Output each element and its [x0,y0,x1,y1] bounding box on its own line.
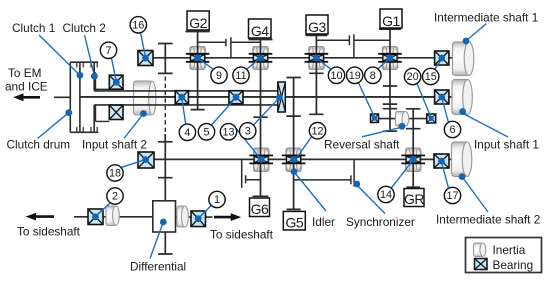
leader Intermediate shaft 1 [467,24,487,41]
gear label box G4 [249,19,272,39]
legend inertia icon [474,243,486,257]
bearing 17 intermediate shaft 2 right [434,154,449,168]
synchronizer idler-GR on intermediate shaft 2 [294,159,355,186]
leader circle 7 [112,58,117,81]
dot idler line [291,168,298,175]
svg-text:To sideshaft: To sideshaft [210,228,274,242]
reversal shaft [371,118,435,120]
final drive ring gear line to differential [158,134,173,201]
svg-text:Input shaft 2: Input shaft 2 [82,138,147,152]
clutch drum housing [70,62,98,132]
needle bearing idler gear with gear end bars [282,155,306,163]
arrow to sideshaft right [214,213,241,221]
numbered circles [100,17,460,208]
gear line G5 idler [286,78,300,210]
leader circle 6 [442,98,449,123]
gear cylinder G3 on upper lay shaft [309,47,324,70]
leader circle 10 [316,58,331,69]
gear line GR from reversal shaft [406,109,420,189]
svg-text:To sideshaft: To sideshaft [17,225,81,239]
svg-text:Bearing: Bearing [493,258,534,272]
clutch drum hub step lines at bearing 7 [96,72,110,121]
legend box [466,238,542,273]
svg-text:G5: G5 [285,215,303,231]
svg-text:G6: G6 [251,201,269,217]
gear cylinder G4 on upper lay shaft [253,47,268,70]
svg-text:Clutch drum: Clutch drum [7,138,71,152]
inertia cylinder intermediate shaft 1 right end [453,42,474,76]
clutch drum plate notches [77,62,97,132]
dot bearing 5 [233,94,240,101]
leader circle 9 [198,58,214,69]
dot clutch drum [65,109,72,116]
svg-text:Inertia: Inertia [493,243,526,257]
needle bearing gear G2 with gear end bars [186,54,210,62]
leader Input shaft 2 [124,114,144,139]
bearing 6 input shaft 1 right [435,90,449,104]
svg-text:Reversal shaft: Reversal shaft [324,137,400,151]
bearing 18 intermediate shaft 2 left [138,152,154,168]
dot synchronizer lower [353,181,360,188]
bearing 1 right sideshaft [191,211,206,227]
sideshaft left [74,216,153,218]
gear label box G1 [380,9,402,29]
svg-text:G1: G1 [382,13,400,29]
leader circle 19 [359,83,375,117]
svg-text:11: 11 [235,70,246,82]
svg-text:GR: GR [404,191,424,207]
inertia cylinder left sideshaft [106,206,119,226]
svg-text:7: 7 [105,45,111,57]
svg-text:9: 9 [216,70,222,82]
anchor dots [65,38,469,226]
gear label box G6 [250,198,270,217]
gear line G3 [305,35,327,114]
svg-text:Clutch 2: Clutch 2 [63,21,106,35]
gear line G1 down to reversal shaft [379,29,401,131]
differential lower stub with gear bar [158,232,173,254]
needle bearing gear G4 with gear end bars [249,54,273,62]
svg-text:10: 10 [330,70,342,82]
leader circle 2 [96,202,111,216]
leader circle 13 [234,126,261,159]
svg-text:13: 13 [222,126,234,138]
gear cylinder idler G5 on intermediate shaft 2 [286,148,301,172]
bearing 19 reversal shaft left small [371,114,379,123]
input shaft 2 hollow shaft bottom line [94,104,278,106]
bearing 5 on input shaft 2 [229,91,243,104]
dot bearing 4 [178,94,185,101]
dot bearing 18 [142,156,149,163]
svg-text:To EM: To EM [8,66,41,80]
dot clutch 1 [77,72,84,79]
svg-text:15: 15 [425,71,437,83]
dot bearing 17 [438,158,445,165]
bearing 15 upper lay shaft right [435,51,449,65]
inertia cylinder reversal shaft [396,112,409,127]
dot reversal inertia [399,123,406,130]
bearing 3 pilot bearing between input shafts [278,82,286,112]
sideshaft right [176,216,213,218]
synchronizer G3-G1 on lay shaft [316,34,390,58]
dot reversal bearing right [429,116,434,121]
leader circle 3 [254,98,280,126]
needle bearing gear G1 with gear end bars [378,54,402,62]
differential cage box [153,201,176,232]
dot gear G4 bearing [257,54,264,61]
gear label box GR [404,189,424,208]
leader circle 20 [417,84,431,118]
dot input shaft 2 cylinder [140,110,147,117]
final drive dashed mesh line [164,77,166,134]
inertia cylinder intermediate shaft 2 right end [452,142,472,177]
synchronizer G2-G4 on lay shaft [198,37,261,58]
bearing 16 upper lay shaft left [138,51,153,66]
leader Idler [295,173,326,211]
svg-text:14: 14 [380,189,392,201]
leader Clutch 1 [39,35,80,75]
svg-text:Differential: Differential [130,260,186,274]
leader lines [38,24,509,259]
svg-text:6: 6 [449,124,455,136]
svg-text:16: 16 [132,19,144,31]
wire engine input stub [54,96,70,98]
dot bearing 16 [142,55,149,62]
leader circle 12 [297,136,312,157]
inertia cylinder on input shaft 2 [134,81,156,115]
svg-text:Intermediate shaft 2: Intermediate shaft 2 [436,213,540,227]
svg-text:G4: G4 [251,23,269,39]
dot idler gear bearing [290,156,297,163]
gear cylinder G2 on upper lay shaft [190,47,205,70]
bearing 2 left sideshaft [88,209,103,225]
leader Differential [150,222,163,259]
leader circle 1 [198,205,211,218]
upper lay shaft [139,57,453,59]
gear cylinder 14 (GR) on intermediate shaft 2 [406,148,421,172]
bearing 7 lower square [109,105,123,119]
leader circle 17 [442,162,449,188]
svg-text:G3: G3 [308,19,326,35]
svg-text:20: 20 [407,71,419,83]
gear line G4 down to G6 [249,40,273,197]
needle bearing gear G3 with gear end bars [305,54,329,62]
clutch 1 disc [79,62,81,132]
gear line G2 [185,32,209,110]
leader circle 18 [122,160,146,168]
input shaft 2 hollow shaft top line [94,90,278,92]
leader circle 4 [182,98,186,125]
svg-text:Input shaft 1: Input shaft 1 [474,137,539,151]
inertia cylinder right sideshaft [177,206,188,227]
svg-text:5: 5 [203,126,209,138]
gear cylinder G1 on upper lay shaft [382,47,397,70]
svg-text:1: 1 [214,194,220,206]
svg-text:3: 3 [245,126,251,138]
leader circle 8 [378,58,391,69]
dot input shaft 1 inertia [459,108,466,115]
clutch 2 disc [93,62,95,132]
svg-text:Clutch 1: Clutch 1 [12,21,55,35]
dot gear G1 bearing [387,54,394,61]
dot gear 13 bearing lower [258,156,265,163]
leader circle 16 [141,33,146,57]
dot intermediate shaft 1 inertia [463,38,470,45]
leader circle 15 [435,59,442,70]
svg-text:4: 4 [184,127,190,139]
gear label box G2 [187,11,209,31]
leader Clutch drum [38,113,69,139]
synchronizer G6 on intermediate shaft 2 [242,159,261,187]
svg-text:Idler: Idler [312,215,335,229]
input shaft 1 solid shaft [80,96,452,98]
dot bearing 6 [438,94,445,101]
svg-text:18: 18 [109,168,121,180]
dot bearing 2 [92,213,99,220]
dot clutch 2 [91,73,98,80]
arrow to sideshaft left [26,213,54,221]
dot differential [160,219,167,226]
legend bearing icon [475,259,488,270]
leader Input shaft 1 [464,114,508,137]
svg-text:G2: G2 [189,15,207,31]
svg-text:Intermediate shaft 1: Intermediate shaft 1 [434,10,538,24]
needle bearing gear 13 lower with gear end bars [249,155,273,163]
bearing 7 upper square [109,75,123,89]
svg-text:and ICE: and ICE [5,80,48,94]
inertia cylinder input shaft 1 right end [452,80,472,115]
dot gear 14 bearing [410,156,417,163]
svg-text:Synchronizer: Synchronizer [346,215,415,229]
leader Synchronizer [357,186,385,214]
leader Clutch 2 [85,35,95,76]
needle bearing gear 14 with gear end bars [401,155,425,163]
dot pilot bearing 3 [276,94,283,101]
arrow to EM and ICE [13,93,40,101]
final drive gear line upper (pinion on lay shaft) [158,44,173,74]
dot bearing 7 [113,79,120,86]
circle numbers text [105,19,458,206]
svg-text:2: 2 [112,191,118,203]
gear label box G5 [283,211,305,230]
svg-text:17: 17 [446,190,458,202]
svg-text:12: 12 [311,125,323,137]
leader circle 11 [247,58,261,69]
dot intermediate shaft 2 inertia [459,173,466,180]
dot gear G2 bearing [194,54,201,61]
leader circle 5 [212,98,237,126]
gear cylinder G4/G6 idler pair on intermediate shaft 2 [254,148,269,172]
intermediate shaft 2 [139,158,452,160]
dot bearing 15 [438,55,445,62]
dot bearing 1 [195,215,202,222]
bearing 4 on input shaft 2 [175,91,188,104]
dot gear G3 bearing [313,54,320,61]
svg-text:19: 19 [349,70,361,82]
leader Intermediate shaft 2 [463,178,488,212]
leader circle 14 [392,160,414,188]
bearing 20 reversal shaft right small [427,114,436,123]
dot reversal bearing left [372,116,377,121]
gear label box G3 [306,15,328,35]
leader Reversal shaft [362,128,401,137]
svg-text:8: 8 [370,70,376,82]
